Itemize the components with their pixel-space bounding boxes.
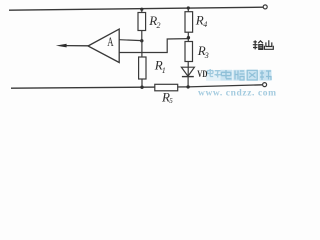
terminal: bottom-right open circle [263,83,267,87]
glyph 子 (small) [215,71,222,78]
wire: R1 to bottom rail [141,79,143,87]
wire: bottom rail [11,85,263,88]
diode VD triangle [181,67,194,76]
resistor R3 [185,42,193,62]
svg-text:3: 3 [204,51,209,60]
svg-text:5: 5 [169,97,173,104]
wire: top rail to R2 [141,9,143,12]
resistor R4 [185,12,193,33]
glyph 电 (large) [221,70,233,81]
wire: R4 to divider node [187,32,189,41]
glyph 路 [234,70,246,81]
glyph 输 [253,40,258,49]
node: feedback junction (R2/R1/op-amp input) [140,39,143,42]
node: diode / bottom rail junction [186,85,189,88]
resistor R2 [138,13,146,31]
glyph 站 [260,70,272,81]
svg-text:4: 4 [203,20,207,29]
wire: op-amp output line [66,45,89,47]
paper background [0,0,299,104]
glyph 电 (small) [208,69,214,77]
svg-text:1: 1 [162,66,166,75]
svg-text:A: A [107,34,114,49]
node: top rail / R4 junction [187,6,190,9]
node: R1 / bottom rail junction [140,86,143,89]
glyph 图 [247,70,259,81]
wire: top rail [9,7,263,10]
diode VD cathode bar [182,76,194,78]
svg-text:www. cndzz. com: www. cndzz. com [198,89,277,99]
svg-text:VD: VD [197,70,207,80]
glyph 出 [264,40,273,49]
node: R4/R3 divider junction [187,36,190,39]
wire: top rail to R4 [187,8,189,12]
op-amp U1 triangle [88,29,119,62]
arrow: output arrowhead [56,44,67,48]
label 输出 (output), hand-drawn glyphs [253,40,273,49]
watermark line 1: 电子电路图站 (light blue blocks) [206,69,272,81]
wire: diode to bottom rail [187,77,189,87]
wire: op-amp lower input, step to R4/R3 node [119,39,188,53]
terminal: top-right open circle [263,5,267,9]
resistor R1 [139,57,146,79]
svg-text:2: 2 [157,21,161,30]
wire: R2 to feedback node [141,31,143,41]
node: top rail / R2 junction [140,8,143,11]
wire: R3 to diode [187,62,189,77]
resistor R5 (series in bottom rail) [155,84,178,91]
wire: op-amp upper input to feedback node [119,39,142,42]
wire: feedback node down to R1 [141,41,143,57]
